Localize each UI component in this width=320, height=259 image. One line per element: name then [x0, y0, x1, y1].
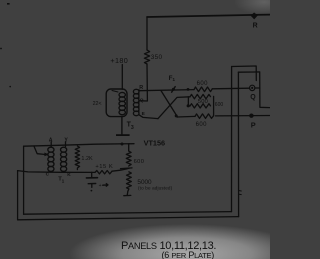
transformer T3 secondary winding [133, 89, 139, 115]
wire row1 to Q [212, 87, 249, 90]
terminal Q ring [250, 85, 255, 90]
svg-text:+180: +180 [110, 56, 128, 65]
terminal Q inner dot [251, 87, 253, 89]
svg-text:VT156: VT156 [144, 138, 166, 147]
transformer T3 primary [106, 89, 127, 117]
wire top rail lower block [24, 144, 134, 147]
wire 600 top lead [128, 144, 130, 151]
wire loop1 top-right [232, 66, 257, 81]
node dot row3 left [187, 104, 190, 107]
speck top left [7, 3, 10, 5]
junction tick [121, 167, 133, 170]
svg-text:C: C [46, 172, 50, 178]
svg-text:A: A [49, 137, 53, 143]
node dot on rail [121, 143, 124, 146]
svg-text:+15 K: +15 K [95, 164, 113, 170]
svg-text:P: P [251, 120, 256, 129]
speck dot [9, 86, 11, 88]
svg-text:K: K [67, 172, 71, 178]
wire 5000 bottom stub [124, 191, 131, 196]
speck left edge [0, 48, 2, 50]
terminal P dot [249, 114, 253, 118]
light smudge top-right corner [234, 0, 294, 15]
wire loop2 left vertical [17, 171, 19, 220]
svg-text:Q: Q [250, 94, 256, 101]
svg-text:(6 PER PLATE): (6 PER PLATE) [162, 250, 215, 259]
wire loop2 right vertical [237, 72, 239, 216]
light photo glare bottom-right [69, 224, 305, 259]
resistor 350 [144, 50, 149, 64]
capacitor to ground [91, 172, 93, 177]
variable tap arrow [34, 146, 44, 154]
capacitor plate T3 bottom [116, 134, 130, 136]
wire jumper row2-row3 left [187, 97, 189, 106]
resistor 5000 vertical [126, 172, 131, 191]
junction dot transformer cap plate [0, 3, 258, 192]
resistor 1.2K [75, 146, 79, 170]
wire loop1 bottom [24, 212, 232, 215]
node +180 lead [121, 65, 123, 90]
svg-text:R: R [139, 85, 143, 91]
transformer T1 left winding [50, 142, 52, 147]
resistor 600 vertical [126, 151, 131, 166]
resistor +15K inline [95, 171, 112, 174]
wire Q to corner [255, 87, 260, 89]
svg-text:+: + [99, 183, 102, 189]
node dot F1 [172, 88, 175, 91]
wire 350 to center tap [142, 64, 148, 101]
svg-text:T1: T1 [58, 177, 65, 184]
svg-text:F1: F1 [169, 75, 176, 82]
wire HT corner down [146, 17, 148, 50]
wire loop2 ticks [239, 191, 241, 195]
wire row4 to P and edge [216, 115, 271, 117]
ground dot below capacitor [91, 190, 93, 192]
svg-text:R: R [253, 22, 258, 29]
wire diagonal from bottom to middle row [158, 97, 190, 119]
wire T3 bottom lead [121, 117, 122, 135]
wire HT rail top [147, 15, 270, 17]
node dot row1 left [187, 88, 190, 91]
polarity arrow mark [103, 184, 108, 187]
wire jumper row2-row4 right [213, 96, 215, 116]
arrow diamond node R top [251, 13, 258, 20]
svg-text:350: 350 [151, 54, 163, 61]
svg-text:1.2K: 1.2K [81, 156, 93, 162]
wire row4 left [177, 115, 195, 118]
arrowhead variable tap [44, 153, 49, 157]
fuse F1 tick [172, 87, 176, 93]
wire secondary center tap [139, 100, 142, 102]
svg-text:500: 500 [198, 99, 208, 105]
svg-text:Y: Y [64, 137, 68, 143]
resistor 600 row4 [195, 114, 214, 119]
wire bottom rail lower block [18, 171, 95, 173]
wire loop1 left vertical [23, 146, 25, 214]
svg-text:(to be adjusted): (to be adjusted) [138, 186, 173, 191]
wire tap R to resistor bank [139, 90, 194, 91]
wire loop1 right vertical [231, 67, 233, 212]
svg-text:600: 600 [134, 159, 145, 165]
wire loop2 bottom [18, 217, 239, 220]
wire loop2 top-right [238, 72, 270, 108]
wire diagonal from top to bottom row [161, 91, 178, 117]
resistor 600 row1 [194, 87, 212, 92]
resistor 600 row3 [190, 104, 210, 108]
svg-text:Q: Q [140, 97, 144, 103]
wire tap E [139, 115, 158, 119]
svg-text:600: 600 [196, 122, 207, 128]
resistor 500 row2 [190, 94, 210, 98]
svg-text:600: 600 [197, 81, 208, 87]
svg-text:600: 600 [215, 102, 224, 108]
node dot diag1 landing [175, 114, 178, 117]
transformer T1 right winding [65, 142, 67, 147]
svg-text:22<: 22< [93, 101, 102, 107]
